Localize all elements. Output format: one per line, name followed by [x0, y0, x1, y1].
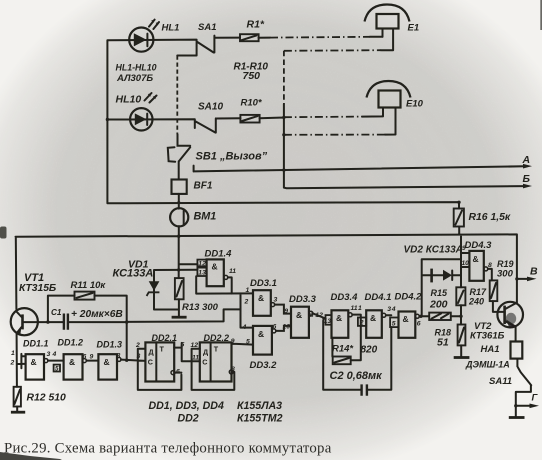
svg-text:HL10: HL10 [116, 94, 142, 106]
svg-text:4: 4 [242, 324, 247, 331]
svg-text:1: 1 [246, 287, 250, 294]
svg-text:12: 12 [315, 312, 323, 319]
svg-text:DD3.4: DD3.4 [331, 292, 359, 303]
svg-text:R13 300: R13 300 [182, 302, 219, 313]
svg-text:4: 4 [52, 351, 57, 358]
svg-text:11: 11 [229, 268, 236, 275]
svg-text:DD2.1: DD2.1 [152, 333, 178, 343]
svg-text:&: & [212, 262, 218, 272]
svg-text:C2 0,68мк: C2 0,68мк [330, 370, 384, 382]
svg-text:R12 510: R12 510 [27, 393, 67, 404]
svg-text:9: 9 [284, 308, 288, 315]
svg-text:C: C [148, 358, 153, 367]
svg-text:R16 1,5к: R16 1,5к [469, 212, 511, 223]
svg-text:DD2.2: DD2.2 [204, 333, 230, 343]
svg-text:К155ТМ2: К155ТМ2 [237, 413, 283, 425]
svg-text:Д: Д [203, 348, 208, 357]
svg-text:HL1: HL1 [162, 23, 180, 34]
svg-text:8: 8 [231, 366, 235, 373]
svg-text:DD4.3: DD4.3 [465, 240, 493, 251]
svg-text:&: & [258, 329, 264, 339]
svg-text:BM1: BM1 [194, 211, 217, 223]
svg-text:9: 9 [90, 354, 94, 361]
svg-text:SA1: SA1 [198, 22, 216, 33]
svg-text:КТ361Б: КТ361Б [470, 331, 505, 342]
svg-text:&: & [69, 357, 75, 367]
svg-text:VD2 КС133А: VD2 КС133А [404, 245, 463, 256]
svg-text:SA11: SA11 [489, 376, 512, 387]
svg-text:300: 300 [497, 269, 514, 280]
svg-text:BF1: BF1 [194, 181, 213, 192]
svg-text:R17: R17 [470, 287, 488, 297]
svg-text:E10: E10 [406, 99, 424, 110]
svg-text:2: 2 [10, 360, 15, 367]
svg-text:11: 11 [351, 305, 358, 312]
svg-text:C: C [202, 358, 207, 367]
svg-text:Б: Б [523, 173, 531, 185]
svg-text:Т: Т [214, 345, 219, 354]
svg-text:&: & [336, 313, 342, 323]
svg-text:&: & [296, 310, 302, 320]
svg-text:5: 5 [181, 342, 185, 349]
svg-text:DD1.1: DD1.1 [23, 339, 49, 349]
svg-text:DD1, DD3, DD4: DD1, DD3, DD4 [149, 400, 224, 412]
svg-text:R11 10к: R11 10к [71, 280, 107, 291]
svg-text:750: 750 [243, 70, 261, 82]
svg-text:DD1.4: DD1.4 [205, 249, 233, 260]
svg-text:НА1: НА1 [481, 344, 500, 355]
svg-text:А: А [522, 154, 531, 166]
svg-text:DD1.3: DD1.3 [97, 340, 123, 350]
svg-text:6: 6 [417, 321, 421, 328]
svg-text:6: 6 [83, 354, 87, 361]
svg-text:6: 6 [176, 369, 180, 376]
svg-text:DD3.1: DD3.1 [250, 278, 277, 289]
svg-text:13: 13 [198, 270, 206, 277]
svg-text:DD2: DD2 [178, 413, 199, 425]
svg-text:R1*: R1* [247, 19, 265, 31]
svg-text:DD3.3: DD3.3 [289, 294, 317, 305]
svg-text:В: В [530, 266, 538, 278]
svg-text:4: 4 [391, 306, 396, 313]
svg-text:3: 3 [387, 306, 391, 313]
svg-text:11: 11 [192, 355, 199, 362]
svg-text:5: 5 [55, 366, 59, 373]
svg-text:R19: R19 [497, 259, 514, 269]
svg-text:12: 12 [191, 342, 199, 349]
svg-text:DD4.1: DD4.1 [365, 292, 392, 303]
svg-text:DD3.2: DD3.2 [250, 360, 278, 371]
svg-text:КС133А: КС133А [113, 268, 154, 280]
svg-text:820: 820 [361, 345, 378, 356]
svg-text:6: 6 [273, 324, 277, 331]
svg-text:C1: C1 [51, 308, 62, 317]
svg-text:5: 5 [246, 339, 250, 346]
svg-text:R14*: R14* [332, 344, 354, 355]
svg-text:3: 3 [137, 353, 141, 360]
svg-text:13: 13 [324, 318, 332, 325]
svg-text:&: & [403, 314, 409, 324]
svg-text:200: 200 [429, 299, 448, 311]
svg-text:SA10: SA10 [198, 102, 223, 113]
svg-text:&: & [473, 254, 479, 264]
svg-text:3: 3 [47, 351, 51, 358]
svg-text:HL1-HL10: HL1-HL10 [116, 63, 157, 73]
svg-text:8: 8 [117, 353, 121, 360]
svg-text:&: & [31, 357, 37, 367]
svg-text:3: 3 [274, 297, 278, 304]
svg-text:АЛ307Б: АЛ307Б [116, 73, 153, 84]
svg-text:КТ315Б: КТ315Б [19, 283, 56, 294]
svg-text:10: 10 [283, 324, 291, 331]
svg-text:DD4.2: DD4.2 [395, 292, 423, 303]
svg-text:К155ЛА3: К155ЛА3 [237, 400, 282, 412]
svg-text:9: 9 [462, 245, 466, 252]
svg-text:2: 2 [135, 342, 140, 349]
svg-text:E1: E1 [408, 23, 420, 34]
svg-text:Д: Д [149, 348, 154, 357]
svg-text:&: & [104, 357, 110, 367]
svg-text:9: 9 [231, 338, 235, 345]
svg-text:5: 5 [392, 321, 396, 328]
svg-text:R15: R15 [431, 288, 449, 298]
svg-text:R10*: R10* [241, 98, 263, 109]
svg-text:51: 51 [437, 337, 449, 349]
svg-text:Рис.29. Схема варианта телефон: Рис.29. Схема варианта телефонного комму… [4, 441, 332, 457]
svg-text:ДЭМШ-1А: ДЭМШ-1А [465, 360, 510, 370]
svg-text:12: 12 [198, 261, 206, 268]
svg-text:1: 1 [11, 350, 15, 357]
svg-text:240: 240 [468, 297, 484, 307]
svg-text:1: 1 [358, 305, 362, 312]
svg-text:2: 2 [244, 299, 249, 306]
svg-text:Т: Т [160, 345, 165, 354]
svg-text:8: 8 [310, 312, 314, 319]
svg-text:8: 8 [488, 262, 492, 269]
svg-text:DD1.2: DD1.2 [58, 338, 84, 348]
svg-text:+ 20мк×6В: + 20мк×6В [71, 309, 123, 320]
svg-text:&: & [258, 293, 264, 303]
svg-text:2: 2 [359, 320, 364, 327]
svg-text:SB1 „Вызов”: SB1 „Вызов” [196, 151, 268, 163]
svg-text:&: & [370, 313, 376, 323]
svg-text:10: 10 [462, 260, 470, 267]
